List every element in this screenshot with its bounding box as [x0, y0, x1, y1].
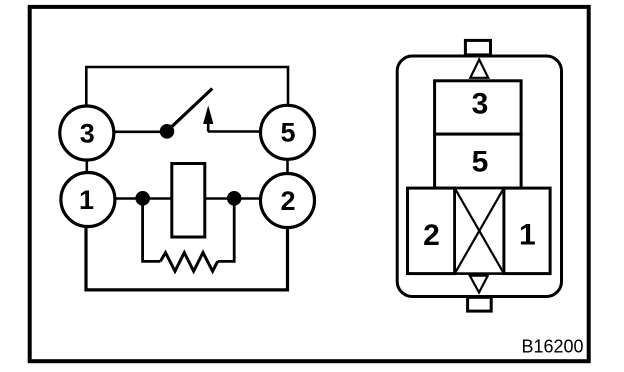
wire switch arrow to terminal 5	[208, 130, 261, 133]
svg-text:2: 2	[423, 219, 440, 252]
switch arrow (moving contact direction)	[203, 106, 213, 132]
wire top rail (terminal 3 to terminal 5)	[86, 67, 288, 105]
terminal 3	[60, 106, 114, 160]
pin 3 cavity	[435, 81, 521, 134]
switch pivot junction	[160, 124, 175, 139]
connector housing	[397, 56, 561, 297]
wire bottom rail (terminal 1 to terminal 2)	[86, 227, 288, 290]
wire terminal 1 to coil	[115, 197, 173, 200]
pin 5 cavity	[435, 134, 521, 188]
top index arrow	[470, 60, 488, 78]
wire coil to terminal 2	[205, 197, 261, 200]
wire node A to resistor	[143, 203, 161, 261]
svg-text:3: 3	[472, 88, 489, 121]
pin 2 cavity	[408, 188, 455, 274]
top mounting tab	[465, 40, 490, 55]
svg-text:5: 5	[472, 146, 489, 179]
pin 1 cavity	[504, 188, 550, 274]
terminal 1	[61, 173, 115, 227]
terminal 5	[261, 105, 315, 159]
wire terminal 3 to switch contact	[114, 131, 162, 134]
svg-text:2: 2	[280, 186, 295, 216]
svg-text:B16200: B16200	[521, 336, 583, 356]
svg-text:5: 5	[280, 118, 295, 148]
bottom mounting tab	[468, 297, 492, 311]
junction node B	[227, 191, 242, 206]
switch blade S	[170, 89, 213, 129]
svg-text:1: 1	[79, 185, 94, 215]
junction node A	[135, 191, 150, 206]
wire terminal 5 to terminal 2	[286, 159, 289, 174]
svg-text:3: 3	[80, 118, 95, 148]
keyway cavity with cross	[455, 188, 504, 274]
svg-text:1: 1	[519, 219, 536, 252]
bottom index arrow	[470, 276, 488, 293]
wire resistor to node B	[218, 203, 235, 261]
terminal 2	[261, 174, 315, 228]
resistor R	[160, 253, 217, 272]
wire terminal 3 to terminal 1	[86, 160, 89, 173]
relay coil L	[172, 164, 205, 238]
